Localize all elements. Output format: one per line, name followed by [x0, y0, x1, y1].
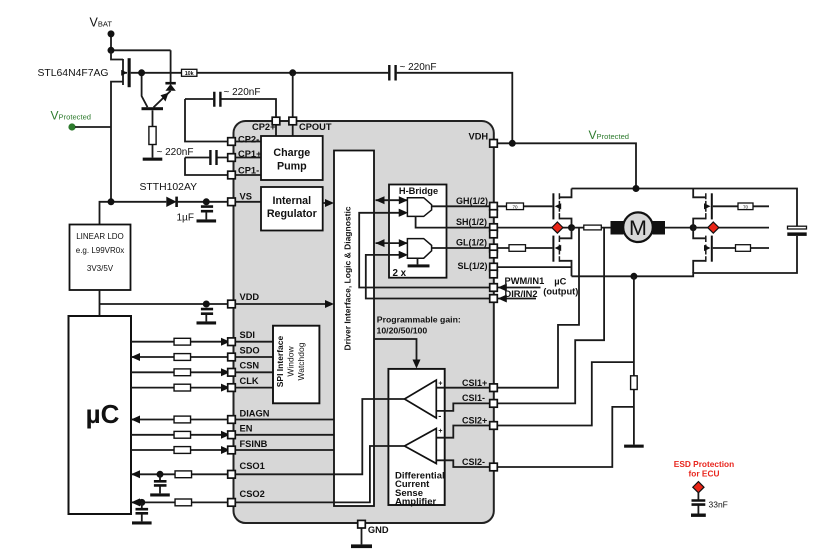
svg-text:M: M	[629, 216, 647, 240]
svg-text:Driver Interface, Logic & Diag: Driver Interface, Logic & Diagnostic	[342, 206, 352, 350]
svg-text:VProtected: VProtected	[589, 128, 630, 142]
svg-text:Programmable gain:: Programmable gain:	[377, 315, 461, 325]
svg-text:µC: µC	[554, 277, 566, 287]
svg-text:70: 70	[743, 205, 749, 210]
svg-text:VProtected: VProtected	[51, 109, 92, 123]
svg-text:CSO2: CSO2	[240, 489, 265, 499]
svg-text:SDI: SDI	[240, 330, 256, 340]
svg-text:-: -	[438, 411, 441, 421]
svg-text:Charge: Charge	[273, 147, 310, 159]
svg-text:Amplifier: Amplifier	[395, 497, 436, 508]
svg-text:Internal: Internal	[272, 195, 311, 207]
svg-text:Regulator: Regulator	[267, 208, 317, 220]
svg-text:~ 220nF: ~ 220nF	[400, 62, 437, 73]
svg-text:GL(1/2): GL(1/2)	[456, 238, 487, 248]
svg-text:CSN: CSN	[240, 361, 260, 371]
svg-text:-: -	[438, 455, 441, 465]
svg-text:STTH102AY: STTH102AY	[140, 182, 198, 193]
svg-text:H-Bridge: H-Bridge	[399, 186, 438, 196]
svg-text:SH(1/2): SH(1/2)	[456, 217, 487, 227]
svg-text:DIR/IN2: DIR/IN2	[505, 289, 538, 299]
svg-text:CSI1-: CSI1-	[462, 393, 485, 403]
svg-text:VBAT: VBAT	[90, 16, 113, 30]
svg-text:SPI Interface: SPI Interface	[275, 335, 285, 387]
svg-text:GH(1/2): GH(1/2)	[456, 196, 488, 206]
svg-text:2 x: 2 x	[393, 268, 407, 279]
svg-text:LINEAR LDO: LINEAR LDO	[76, 232, 124, 241]
svg-text:+: +	[438, 428, 442, 435]
svg-text:µC: µC	[86, 399, 120, 429]
svg-text:~ 220nF: ~ 220nF	[157, 147, 194, 158]
svg-text:CLK: CLK	[240, 376, 259, 386]
svg-text:CSI2-: CSI2-	[462, 457, 485, 467]
svg-text:10/20/50/100: 10/20/50/100	[377, 325, 428, 335]
svg-text:CSO1: CSO1	[240, 461, 265, 471]
svg-text:STL64N4F7AG: STL64N4F7AG	[37, 68, 108, 79]
svg-text:(output): (output)	[543, 287, 578, 297]
svg-text:VS: VS	[240, 191, 252, 201]
svg-text:CSI1+: CSI1+	[462, 378, 487, 388]
svg-text:VDH: VDH	[469, 131, 489, 141]
svg-text:70: 70	[512, 205, 518, 210]
svg-text:3V3/5V: 3V3/5V	[87, 264, 114, 273]
svg-text:Watchdog: Watchdog	[296, 342, 306, 380]
svg-text:+: +	[438, 380, 442, 387]
svg-text:PWM/IN1: PWM/IN1	[505, 276, 545, 286]
svg-text:DIAGN: DIAGN	[240, 408, 270, 418]
svg-text:Window: Window	[285, 346, 295, 377]
svg-text:ESD Protection: ESD Protection	[674, 459, 734, 469]
svg-text:CPOUT: CPOUT	[299, 122, 332, 132]
svg-text:Pump: Pump	[277, 160, 307, 172]
svg-text:CP1-: CP1-	[238, 165, 259, 175]
svg-text:10k: 10k	[185, 71, 194, 77]
svg-text:for ECU: for ECU	[689, 469, 720, 479]
svg-text:~ 220nF: ~ 220nF	[224, 87, 261, 98]
svg-text:SDO: SDO	[240, 345, 260, 355]
svg-text:1µF: 1µF	[177, 212, 194, 223]
svg-text:SL(1/2): SL(1/2)	[458, 261, 488, 271]
svg-text:e.g. L99VR0x: e.g. L99VR0x	[76, 246, 124, 255]
svg-text:EN: EN	[240, 424, 253, 434]
svg-text:VDD: VDD	[240, 292, 260, 302]
svg-text:FSINB: FSINB	[240, 439, 268, 449]
svg-text:33nF: 33nF	[709, 500, 728, 510]
svg-text:CP1+: CP1+	[238, 149, 262, 159]
svg-text:GND: GND	[368, 525, 389, 535]
svg-text:CP2-: CP2-	[238, 134, 259, 144]
svg-text:CSI2+: CSI2+	[462, 416, 487, 426]
